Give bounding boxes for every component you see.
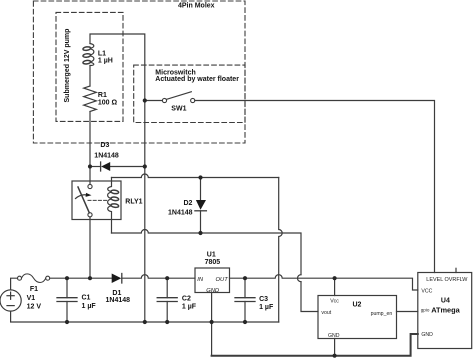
svg-text:gpio: gpio xyxy=(421,308,430,313)
svg-text:D3: D3 xyxy=(100,142,109,149)
wire D1 cathode to U1 IN (hops over x=144.8) xyxy=(122,275,195,279)
svg-text:F1: F1 xyxy=(30,286,38,293)
svg-text:C1: C1 xyxy=(82,295,91,302)
svg-text:7805: 7805 xyxy=(205,259,221,266)
voltage source V1 xyxy=(0,290,21,311)
resistor R1 xyxy=(84,86,97,111)
svg-text:U2: U2 xyxy=(353,302,362,309)
svg-text:1N4148: 1N4148 xyxy=(106,297,131,304)
svg-text:ATmega: ATmega xyxy=(431,306,460,315)
svg-text:1N4148: 1N4148 xyxy=(94,152,119,159)
regulator U1 body xyxy=(195,268,230,293)
fuse F1 xyxy=(18,276,22,280)
wire SW1 to right then down to U4 LEVEL xyxy=(195,101,435,273)
svg-text:1 µF: 1 µF xyxy=(259,304,274,311)
capacitor C3 xyxy=(244,278,246,298)
Submerged 12V pump dashed enclosure xyxy=(56,12,123,121)
svg-text:OUT: OUT xyxy=(216,277,229,283)
4Pin Molex dashed enclosure xyxy=(33,1,245,143)
wire R1 down to D3 node xyxy=(89,112,91,167)
relay RLY1 body xyxy=(72,181,121,220)
svg-text:LEVEL OVRFLW: LEVEL OVRFLW xyxy=(426,277,468,283)
wire U1 OUT 5V rail (hops over x=278.7) to U4 VCC xyxy=(230,275,418,290)
svg-text:pump_en: pump_en xyxy=(371,311,393,317)
svg-text:R1: R1 xyxy=(98,92,107,99)
capacitor C1 xyxy=(66,278,68,298)
vertical net wire x=144.8 xyxy=(144,101,146,323)
svg-text:GND: GND xyxy=(328,333,340,339)
inductor L1 xyxy=(90,44,94,66)
svg-text:Submerged 12V pump: Submerged 12V pump xyxy=(64,29,71,103)
wire fuse to D1 anode xyxy=(50,277,112,279)
U4 OVRFLW stub xyxy=(455,268,457,272)
wire L1 to R1 xyxy=(89,66,91,87)
svg-text:4Pin Molex: 4Pin Molex xyxy=(178,2,215,9)
diode D2 symbol xyxy=(196,200,206,210)
wire relay switch bottom to +rail xyxy=(89,217,91,278)
svg-text:SW1: SW1 xyxy=(171,106,186,113)
ic U2 body xyxy=(318,296,397,339)
hop of x=301 wire over +5V rail xyxy=(298,275,301,282)
svg-text:vout: vout xyxy=(321,310,331,316)
svg-text:1 µF: 1 µF xyxy=(82,303,97,310)
svg-text:GND: GND xyxy=(206,288,219,294)
svg-text:Vcc: Vcc xyxy=(330,299,339,305)
wire right vertical x=278.7 (hops over y=233) xyxy=(279,178,283,323)
wire coil top node (hops over x=144.8) xyxy=(112,174,279,178)
diode D1 symbol xyxy=(112,274,122,284)
svg-text:12 V: 12 V xyxy=(27,303,42,310)
svg-text:GND: GND xyxy=(421,332,433,338)
relay actuator arrow xyxy=(76,195,88,199)
diode D2 wires xyxy=(200,178,202,201)
ground bus wire xyxy=(212,334,418,356)
diode D3 wires xyxy=(90,166,101,168)
svg-text:C2: C2 xyxy=(182,296,191,303)
wire SW1 left lead xyxy=(145,100,163,102)
relay mechanical link (dashed) xyxy=(88,199,107,201)
svg-text:U1: U1 xyxy=(207,252,216,259)
svg-text:Actuated by water floater: Actuated by water floater xyxy=(155,76,239,83)
svg-text:1N4148: 1N4148 xyxy=(168,210,193,217)
relay switch contacts xyxy=(89,167,91,185)
wire U2 Vcc up to 5V rail xyxy=(334,278,336,295)
wire L1 top to corner xyxy=(90,34,145,101)
svg-text:D2: D2 xyxy=(184,200,193,207)
wire U2 GND down to ground bus xyxy=(334,339,336,356)
svg-text:VCC: VCC xyxy=(421,288,432,294)
svg-text:U4: U4 xyxy=(441,298,450,305)
svg-text:IN: IN xyxy=(197,277,204,283)
Microswitch dashed enclosure xyxy=(134,65,245,122)
relay coil xyxy=(108,178,112,234)
svg-text:1 µH: 1 µH xyxy=(98,58,113,65)
bottom return rail xyxy=(11,311,279,322)
svg-text:V1: V1 xyxy=(27,295,36,302)
wire U2 pump_en to U4 gpio xyxy=(397,311,418,313)
capacitor C2 xyxy=(166,278,168,298)
svg-text:1 µF: 1 µF xyxy=(182,303,197,310)
ic U4 body xyxy=(418,273,472,349)
switch SW1 xyxy=(162,98,166,102)
svg-text:L1: L1 xyxy=(98,50,106,57)
svg-text:100 Ω: 100 Ω xyxy=(98,99,118,106)
wire V1 top to fuse xyxy=(11,278,18,290)
wire coil bottom node (hops over x=144.8) then down to U2 vout xyxy=(112,230,319,312)
diode D3 symbol xyxy=(100,162,102,171)
wire U1 GND down to ground bus xyxy=(211,293,213,356)
svg-text:RLY1: RLY1 xyxy=(125,198,142,205)
svg-text:D1: D1 xyxy=(112,290,121,297)
svg-text:C3: C3 xyxy=(259,296,268,303)
